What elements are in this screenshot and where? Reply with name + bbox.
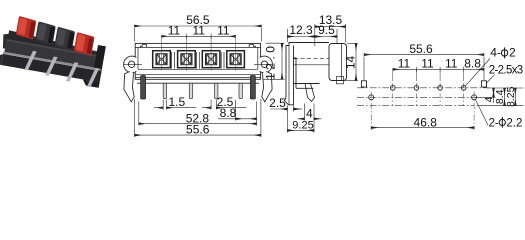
push button 2 (black) (35, 21, 56, 45)
push button 4 (red) (74, 32, 95, 56)
dim 1.5 (154, 100, 197, 110)
side lever step (294, 58, 297, 84)
hole 1 (153, 51, 171, 68)
svg-text:9.25: 9.25 (292, 119, 313, 131)
pin hole 1 (phi2) (391, 86, 396, 91)
rear deck bar (8, 30, 102, 61)
solder pin 2 (45, 56, 57, 77)
main body bar (4, 39, 102, 69)
side lever outline (285, 46, 294, 105)
leader 2-phi2.2 (476, 100, 489, 126)
hole 3 (202, 51, 220, 68)
mount hole right (phi2.2) (472, 95, 477, 100)
leader 2-2.5x3 (486, 75, 495, 84)
dim 12.0 vertical (264, 43, 285, 79)
dim 4 side (298, 104, 322, 133)
side top edge and left notch (286, 43, 329, 59)
left mounting wing (1, 32, 13, 49)
side angled pin (305, 84, 315, 102)
front view (135, 43, 260, 83)
side foot lines (296, 84, 314, 89)
svg-text:11: 11 (168, 23, 181, 37)
support boot (124, 72, 134, 102)
svg-text:14: 14 (343, 56, 357, 70)
svg-text:55.6: 55.6 (409, 42, 433, 56)
front apron (1, 54, 101, 82)
dim 52.8 (139, 102, 257, 126)
side rear block inner line (341, 44, 343, 81)
svg-text:2-: 2- (489, 117, 499, 129)
svg-text:2.5: 2.5 (269, 96, 286, 110)
mount hole vertical centerlines (371, 92, 474, 131)
dim 13.5 (315, 24, 346, 46)
centerline row 3 (357, 105, 474, 107)
dim 4 vertical footprint (477, 88, 524, 103)
hole centerline 2 (185, 37, 187, 71)
divider lines between holes (172, 52, 224, 69)
svg-text:4-: 4- (490, 46, 501, 60)
hole 2 (178, 51, 196, 68)
side lever inner line (288, 46, 290, 105)
svg-text:8.8: 8.8 (220, 106, 237, 120)
side rear block (329, 44, 347, 81)
photo of 4-position speaker spring terminal (0, 13, 108, 89)
dim 8.8 (218, 100, 257, 121)
svg-text:12.3: 12.3 (289, 23, 313, 37)
left mount leg (141, 76, 146, 100)
push button 3 (black) (54, 27, 75, 51)
pin 3 (215, 83, 218, 99)
bottom right corner block (82, 79, 100, 87)
hole centerline 4 (235, 37, 237, 71)
push button 1 (red) (16, 16, 37, 40)
front line below holes (138, 68, 258, 70)
side slot line dashed (294, 58, 329, 60)
mount hole left (phi2.2) (369, 95, 374, 100)
dim 8.4 vertical footprint (477, 88, 524, 106)
right ear assembly (254, 56, 273, 102)
pin hole 3 (438, 86, 443, 91)
front inner top line (135, 46, 260, 48)
rect hole right (2.5x3) (481, 81, 486, 87)
dim 9.25 side (287, 129, 314, 131)
svg-text:11: 11 (217, 23, 230, 37)
svg-text:11: 11 (398, 57, 411, 71)
svg-text:11: 11 (192, 23, 205, 37)
front latch tab right (249, 45, 255, 48)
dim 2.5 side (270, 106, 302, 133)
side body bottom (294, 83, 320, 85)
leader 4-phi2 (465, 59, 490, 87)
dim 11/8.8 footprint (393, 67, 484, 72)
front body outline (135, 43, 260, 79)
dim 2.5 (202, 100, 247, 110)
side rear block bottom notch (337, 77, 344, 84)
dim 56.5 (134, 26, 261, 42)
svg-text:11: 11 (445, 57, 458, 71)
side slot line solid (294, 64, 329, 66)
centerline row 1 (357, 87, 490, 89)
front inner side lines (138, 47, 258, 69)
pin hole vertical centerlines (393, 70, 464, 81)
rect hole left (2.5x3) (361, 81, 366, 87)
dim 9.5 (315, 29, 337, 43)
left ear assembly (123, 56, 142, 102)
front bottom edge line (135, 77, 260, 79)
right mount leg (250, 76, 255, 100)
front base strip (137, 82, 259, 84)
svg-text:8.8: 8.8 (464, 57, 481, 71)
dim 8.25 vertical footprint (514, 88, 516, 106)
dim 55.6 footprint (364, 55, 484, 80)
ear hole (128, 61, 134, 67)
ear crosshair (123, 63, 142, 65)
svg-text:12.0: 12.0 (264, 43, 278, 80)
svg-text:2.2: 2.2 (506, 117, 522, 129)
hole centerline 1 (161, 37, 163, 71)
body top highlight (6, 39, 102, 58)
ear boss (124, 56, 141, 73)
hole 4 (227, 51, 245, 68)
solder pin 1 (24, 50, 36, 71)
svg-text:11: 11 (421, 57, 434, 71)
right end cap (91, 45, 106, 88)
side view (285, 43, 347, 105)
svg-text:1.5: 1.5 (168, 95, 185, 109)
svg-text:2: 2 (509, 46, 516, 60)
hole centerline 3 (210, 37, 212, 71)
left base wedge (0, 53, 3, 65)
dim 12.3 (287, 29, 314, 42)
dim 55.6 (135, 99, 261, 137)
dim 46.8 (371, 127, 474, 129)
svg-text:55.6: 55.6 (186, 122, 210, 136)
front latch tab left (140, 45, 146, 48)
svg-text:9.5: 9.5 (318, 23, 335, 37)
front lower line (135, 73, 260, 75)
svg-text:2-2.5x3: 2-2.5x3 (489, 65, 524, 77)
solder pin 3 (66, 61, 78, 82)
svg-text:46.8: 46.8 (414, 115, 438, 129)
pin hole 4 (461, 86, 466, 91)
pin 4 (239, 83, 242, 99)
svg-text:4: 4 (306, 106, 313, 120)
pin 1 (163, 83, 166, 99)
svg-text:8.25: 8.25 (505, 86, 517, 107)
metal bracket strip (3, 52, 101, 71)
dim 14 vertical (344, 44, 358, 81)
solder pin 4 (87, 67, 99, 88)
dim 11 pitch row (162, 34, 236, 39)
centerline row 2 (357, 96, 481, 98)
pin hole 2 (414, 86, 419, 91)
pin 2 (189, 83, 192, 99)
